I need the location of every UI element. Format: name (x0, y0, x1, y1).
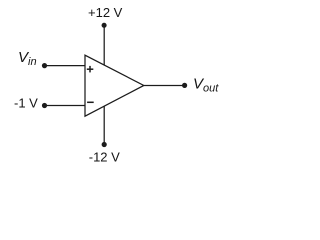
svg-text:-1 V: -1 V (14, 96, 38, 111)
svg-text:Vout: Vout (193, 76, 219, 95)
svg-text:+12 V: +12 V (88, 5, 123, 20)
svg-text:Vin: Vin (18, 49, 37, 68)
svg-text:-12 V: -12 V (89, 149, 120, 164)
